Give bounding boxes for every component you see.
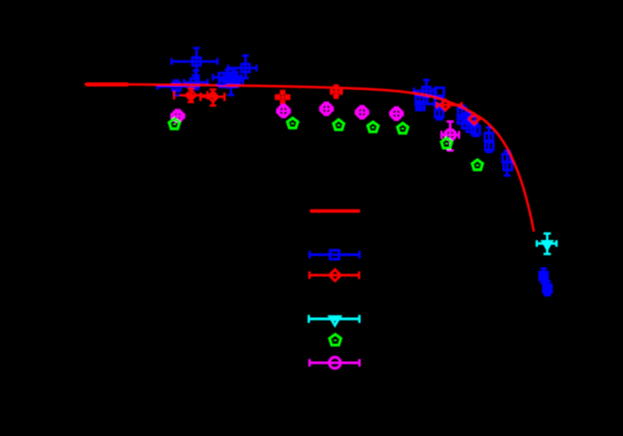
red diamond D2: [201, 96, 225, 98]
blue square B11: [414, 90, 434, 92]
blue square B6: [227, 70, 230, 86]
green pentagon G2: [287, 118, 297, 128]
blue square B7: [232, 69, 235, 85]
legend green pentagon entry: [329, 334, 340, 345]
blue square B4: [158, 85, 191, 87]
blue square B25: [542, 269, 545, 283]
blue square B18: [462, 120, 470, 128]
blue square B3: [184, 81, 208, 83]
legend cyan triangle entry: [309, 317, 360, 320]
green pentagon G1: [169, 119, 179, 129]
blue square B14b: [435, 98, 443, 106]
magenta circle M6: [442, 134, 460, 136]
blue square B15: [438, 104, 441, 119]
blue square B24: [504, 162, 512, 170]
red theory curve: [86, 82, 129, 86]
blue square B10: [228, 79, 243, 81]
blue square B19: [467, 124, 475, 132]
legend magenta circle entry: [310, 361, 360, 364]
blue square B8c: [230, 79, 238, 87]
green pentagon G3: [333, 120, 343, 130]
blue square B9: [230, 76, 233, 95]
blue square B17c: [467, 117, 475, 125]
blue square B16: [461, 106, 464, 119]
blue square B8: [220, 79, 228, 87]
green pentagon G6: [441, 138, 451, 148]
blue square B12: [436, 88, 444, 96]
blue square B1: [172, 60, 218, 62]
green pentagon G5: [397, 123, 407, 133]
blue square B17: [458, 116, 466, 124]
red diamond P1 (thick plus style): [275, 94, 291, 100]
cyan triangle T1: [537, 234, 557, 255]
magenta circle M2: [277, 110, 289, 112]
blue square B8b: [225, 79, 233, 87]
blue cap fragment over D1 bar: [175, 94, 180, 96]
blue square B21: [488, 128, 491, 153]
blue square B22: [485, 142, 493, 150]
magenta circle M1: [172, 115, 185, 117]
red diamond D3 (thick plus style): [330, 89, 343, 95]
magenta circle M4: [356, 111, 368, 113]
blue square B17b: [462, 114, 470, 122]
green pentagon G7: [472, 160, 482, 170]
green pentagon G4: [368, 122, 378, 132]
blue square B26: [546, 281, 549, 295]
blue bar fragment over curve: [217, 83, 227, 85]
blue square B23: [506, 151, 509, 176]
red diamond D4: [437, 104, 462, 106]
legend red diamond entry: [310, 274, 360, 277]
blue square B20: [475, 124, 478, 136]
blue square B14: [427, 96, 435, 104]
magenta circle M3: [320, 108, 332, 110]
blue square B2: [228, 67, 257, 69]
red diamond D1: [174, 94, 208, 96]
blue square B13b: [416, 102, 424, 110]
red diamond D5: [469, 114, 479, 124]
legend blue square entry: [310, 253, 360, 256]
legend curve line: [310, 209, 360, 212]
magenta circle M5: [390, 112, 402, 114]
blue square B13: [419, 95, 422, 108]
blue square B5: [213, 76, 242, 78]
